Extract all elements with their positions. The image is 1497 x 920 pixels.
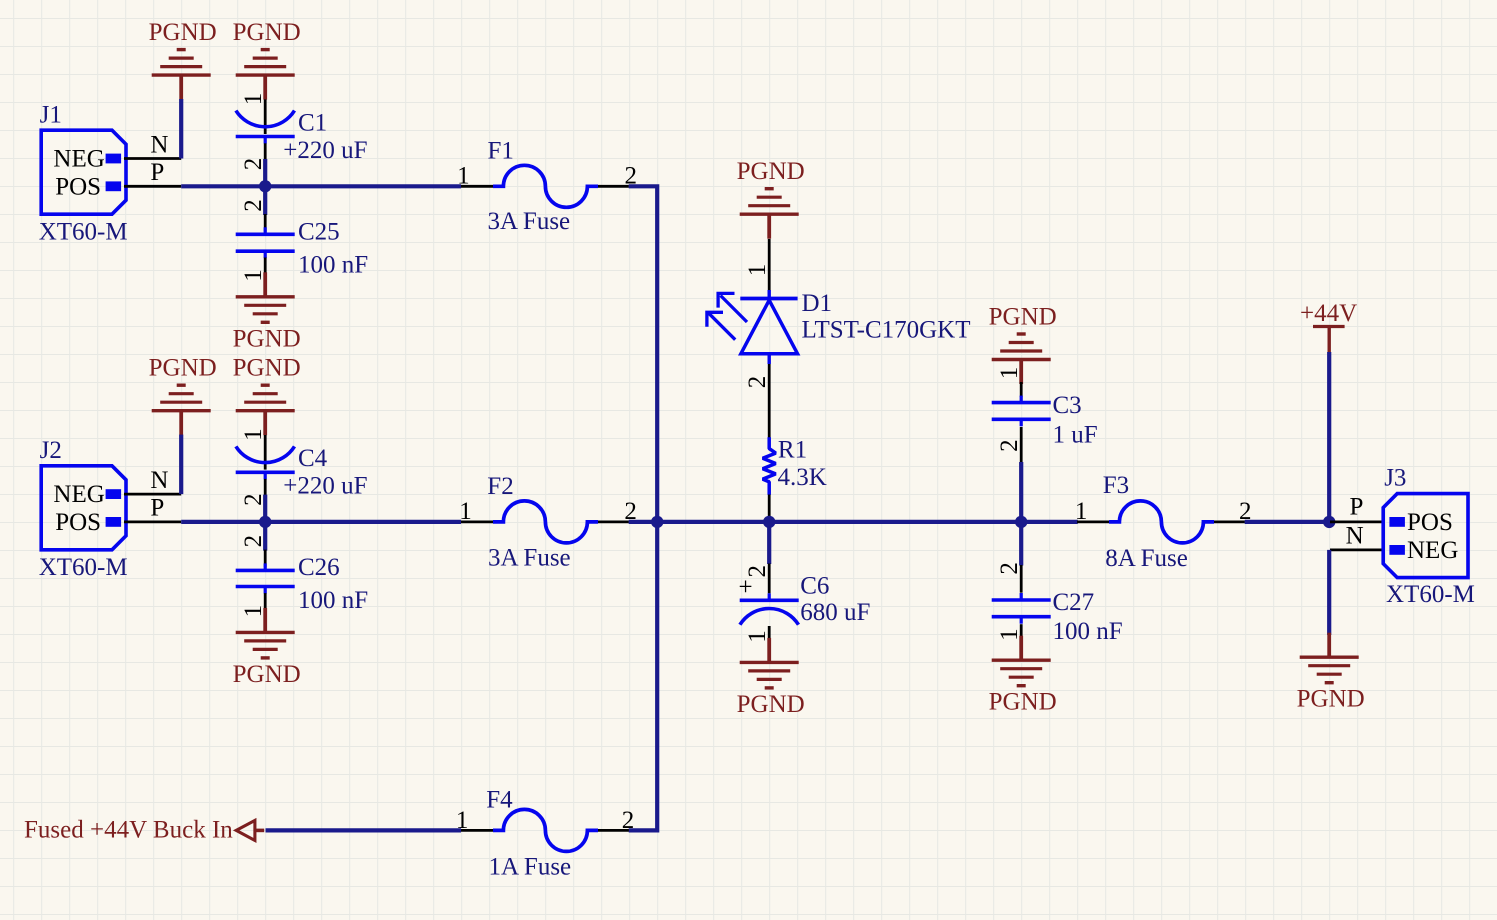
svg-text:J1: J1 (40, 102, 62, 129)
svg-text:POS: POS (55, 509, 101, 536)
svg-text:1: 1 (1075, 498, 1088, 525)
power port PGND (above D1) (737, 158, 805, 239)
svg-text:J3: J3 (1384, 465, 1406, 492)
svg-text:C6: C6 (800, 573, 829, 600)
connector J3 (1383, 465, 1475, 608)
svg-text:+: + (738, 574, 752, 601)
capacitor C3 pin 1 lead (996, 367, 1023, 397)
wire C4 to C26 node (263, 495, 267, 551)
pin N of J3 (1330, 523, 1383, 550)
power port PGND (below C27) (989, 636, 1057, 716)
svg-text:+44V: +44V (1300, 300, 1357, 327)
svg-text:1: 1 (240, 428, 267, 441)
wire row2 middle (629, 520, 1078, 524)
wire J2.N to PGND (179, 435, 183, 495)
capacitor C27 pin 1 lead (996, 624, 1023, 641)
pin P of J2 (124, 495, 181, 522)
svg-text:PGND: PGND (233, 355, 301, 382)
power port PGND (below C25) (233, 272, 301, 352)
resistor R1 (763, 437, 827, 495)
svg-text:1: 1 (240, 93, 267, 106)
svg-text:NEG: NEG (1407, 537, 1458, 564)
capacitor C25 (236, 219, 368, 279)
svg-text:PGND: PGND (233, 661, 301, 688)
svg-text:XT60-M: XT60-M (39, 219, 128, 246)
wire C1 to C25 node (263, 159, 267, 215)
svg-text:PGND: PGND (149, 19, 217, 46)
wire bus F1 to F4 (629, 186, 658, 830)
svg-text:PGND: PGND (989, 304, 1057, 331)
capacitor C26 pin 1 lead (240, 593, 267, 617)
junction bus row2 (651, 516, 663, 528)
svg-text:3A Fuse: 3A Fuse (488, 208, 571, 235)
pin N of J1 (124, 132, 181, 159)
fuse F4 (486, 787, 598, 881)
svg-text:2: 2 (622, 807, 635, 834)
svg-text:R1: R1 (778, 437, 807, 464)
svg-text:J2: J2 (40, 437, 62, 464)
svg-text:1: 1 (457, 162, 470, 189)
svg-text:D1: D1 (802, 290, 833, 317)
svg-text:N: N (1346, 523, 1364, 550)
capacitor C4 pin 1 lead (240, 428, 267, 469)
svg-text:1A Fuse: 1A Fuse (489, 854, 572, 881)
svg-text:+220 uF: +220 uF (283, 473, 367, 500)
fuse F3 (1103, 472, 1214, 572)
capacitor C25 pin 2 lead (240, 199, 267, 231)
svg-text:PGND: PGND (233, 325, 301, 352)
svg-text:1: 1 (996, 367, 1023, 380)
capacitor C1 pin 1 lead (240, 93, 267, 134)
power port PGND (C1 top, row 1) (233, 19, 301, 100)
svg-text:LTST-C170GKT: LTST-C170GKT (802, 317, 971, 344)
svg-text:2: 2 (240, 199, 267, 212)
wire J3.N to PGND (1327, 550, 1331, 635)
power port PGND (C4 top, row 2) (233, 355, 301, 436)
svg-text:+220 uF: +220 uF (283, 137, 367, 164)
power port PGND (J2-N, top row 2) (149, 355, 217, 436)
svg-text:C26: C26 (298, 554, 340, 581)
capacitor C27 (992, 589, 1123, 645)
svg-text:F4: F4 (486, 787, 513, 814)
LED D1 pin 2 lead (744, 364, 771, 438)
capacitor C26 pin 2 lead (240, 535, 267, 567)
pin P of J3 (1330, 494, 1383, 522)
svg-text:100 nF: 100 nF (298, 252, 368, 279)
svg-text:PGND: PGND (233, 19, 301, 46)
svg-text:P: P (1350, 494, 1364, 521)
capacitor C4 (236, 445, 368, 500)
svg-text:P: P (150, 159, 164, 186)
svg-text:1 uF: 1 uF (1053, 422, 1098, 449)
fuse F3 pin leads (1075, 498, 1252, 525)
power port Fused +44V Buck In (24, 816, 264, 843)
wire node to C27 (1019, 522, 1023, 566)
capacitor C1 (236, 110, 368, 165)
svg-text:2: 2 (996, 439, 1023, 452)
svg-text:1: 1 (456, 807, 469, 834)
svg-text:100 nF: 100 nF (298, 587, 368, 614)
capacitor C3 pin 2 lead (996, 427, 1023, 463)
svg-text:PGND: PGND (989, 689, 1057, 716)
capacitor C6 pin 1 lead (744, 626, 771, 643)
svg-text:2: 2 (996, 562, 1023, 575)
capacitor C6 pin 2 lead (738, 564, 771, 602)
svg-text:F3: F3 (1103, 472, 1129, 499)
connector J1 (39, 102, 128, 246)
capacitor C25 pin 1 lead (240, 258, 267, 282)
fuse F2 pin leads (459, 498, 637, 525)
svg-text:Fused +44V Buck In: Fused +44V Buck In (24, 816, 233, 843)
svg-text:680 uF: 680 uF (800, 599, 870, 626)
svg-text:N: N (150, 132, 168, 159)
svg-text:3A Fuse: 3A Fuse (488, 545, 571, 572)
svg-text:1: 1 (996, 628, 1023, 641)
svg-text:PGND: PGND (737, 691, 805, 718)
svg-text:1: 1 (240, 605, 267, 618)
capacitor C27 pin 2 lead (996, 562, 1023, 593)
svg-text:C3: C3 (1053, 392, 1082, 419)
svg-text:1: 1 (744, 264, 771, 277)
svg-text:XT60-M: XT60-M (1386, 581, 1475, 608)
power port +44V (1300, 300, 1357, 353)
svg-text:NEG: NEG (53, 145, 104, 172)
svg-text:NEG: NEG (53, 481, 104, 508)
connector J2 (39, 437, 128, 581)
svg-text:2: 2 (240, 535, 267, 548)
junction node D1/C6 (763, 516, 775, 528)
pin N of J2 (124, 467, 181, 494)
svg-text:C25: C25 (298, 219, 340, 246)
fuse F2 (487, 473, 598, 572)
wire node to C6 (767, 522, 771, 564)
LED D1 pin 1 lead (744, 239, 771, 291)
wire F3 to J3 node (1245, 520, 1331, 524)
junction node C3/C27 (1015, 516, 1027, 528)
svg-text:PGND: PGND (1297, 686, 1365, 713)
wire J1.N to PGND (179, 99, 183, 159)
power port PGND (J1-N, top row 1) (149, 19, 217, 100)
wire J1.P to node row1 (181, 184, 461, 188)
wire J2.P to node row2 (181, 520, 461, 524)
capacitor C1 pin 2 lead (240, 143, 267, 170)
LED D1 (707, 290, 971, 364)
svg-text:PGND: PGND (149, 355, 217, 382)
wire C3 to node (1019, 462, 1023, 522)
svg-text:8A Fuse: 8A Fuse (1105, 545, 1188, 572)
svg-text:C1: C1 (298, 110, 327, 137)
capacitor C3 (992, 392, 1098, 449)
svg-text:1: 1 (744, 630, 771, 643)
fuse F4 pin leads (456, 807, 634, 834)
power port PGND (below C26) (233, 608, 301, 688)
capacitor C6 (740, 573, 871, 627)
svg-text:F1: F1 (488, 138, 514, 165)
svg-text:2: 2 (744, 376, 771, 389)
svg-text:F2: F2 (487, 473, 513, 500)
svg-text:1: 1 (459, 498, 472, 525)
svg-text:100 nF: 100 nF (1053, 618, 1123, 645)
svg-text:XT60-M: XT60-M (39, 554, 128, 581)
svg-text:1: 1 (240, 269, 267, 282)
pin P of J1 (124, 159, 181, 186)
svg-text:4.3K: 4.3K (778, 464, 827, 491)
svg-text:N: N (150, 467, 168, 494)
wire power port to F4 (266, 828, 462, 832)
capacitor C4 pin 2 lead (240, 479, 267, 506)
junction node J3 (1323, 516, 1335, 528)
power port PGND (below J3) (1297, 633, 1365, 713)
svg-text:P: P (150, 495, 164, 522)
resistor R1 pin 2 lead (768, 495, 771, 520)
power port PGND (above C3) (989, 304, 1057, 385)
svg-text:POS: POS (55, 173, 101, 200)
junction node row1 (259, 180, 271, 192)
power port PGND (below C6) (737, 638, 805, 718)
svg-text:PGND: PGND (737, 158, 805, 185)
fuse F1 (488, 138, 599, 236)
svg-text:C4: C4 (298, 445, 328, 472)
fuse F1 pin leads (457, 162, 637, 189)
wire +44V to node (1327, 352, 1331, 522)
svg-text:C27: C27 (1053, 589, 1095, 616)
junction node row2 left (259, 516, 271, 528)
svg-text:POS: POS (1407, 509, 1453, 536)
capacitor C26 (236, 554, 368, 614)
